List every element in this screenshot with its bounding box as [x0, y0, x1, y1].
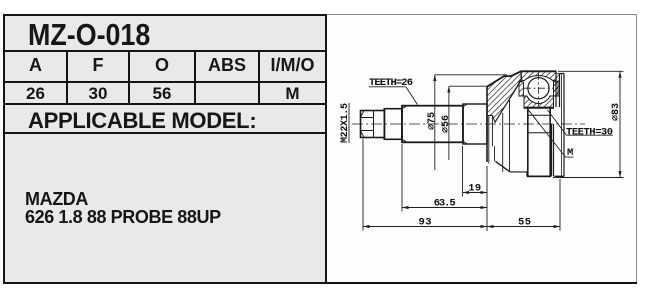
column divider A|F: [66, 52, 68, 103]
bell mouth face: [486, 87, 488, 162]
dim 19 line: [463, 192, 488, 194]
header A: [5, 55, 66, 76]
APPLICABLE MODEL: label: [28, 108, 328, 134]
hub left side: [527, 108, 529, 176]
stub end chamfer bottom: [361, 131, 365, 138]
column divider O|ABS: [194, 52, 196, 103]
cage right section: [554, 81, 559, 96]
ball vertical centermark: [538, 73, 540, 106]
svg-text:⌀56: ⌀56: [441, 115, 452, 133]
M22X1.5 underline: [348, 103, 350, 143]
dim 63.5 line: [402, 207, 487, 209]
svg-text:TEETH=30: TEETH=30: [566, 126, 613, 138]
table line under APPLICABLE MODEL row: [3, 132, 327, 134]
divider between table and drawing: [325, 14, 327, 282]
svg-text:93: 93: [419, 217, 432, 229]
bell wall hatched band over ball: [521, 71, 556, 80]
value I/M/O=M: [260, 84, 325, 104]
mouth inner lip circle edge: [491, 116, 493, 147]
M label leader: [528, 109, 574, 157]
TEETH=26 leader: [406, 87, 417, 105]
TEETH=26 underline: [369, 86, 406, 88]
bell bottom cone: [495, 161, 510, 172]
bell wall hatched section wedge: [487, 71, 522, 122]
bell wall hatched right strip: [554, 81, 557, 96]
dia83 dimension line: [619, 71, 621, 177]
dia56 extension: [449, 85, 487, 87]
dim 19 extension lines: [463, 146, 488, 231]
table line under header row: [3, 81, 327, 83]
ball: [528, 78, 549, 99]
column divider ABS|I/M/O: [258, 52, 260, 103]
value A=26: [5, 84, 66, 104]
mouth inner lip top edge: [487, 115, 492, 117]
bell bottom flat small: [510, 171, 527, 173]
svg-text:TEETH=26: TEETH=26: [369, 77, 413, 89]
svg-text:⌀75: ⌀75: [427, 112, 438, 130]
svg-text:⌀83: ⌀83: [611, 103, 622, 121]
boot groove band hatched: [556, 74, 560, 97]
main horizontal centerline: [352, 123, 585, 125]
hub bore top: [528, 114, 550, 116]
inner race hatched: [524, 96, 554, 107]
dim 63.5 extension line: [401, 144, 403, 212]
right block inner vertical: [561, 74, 563, 177]
neck left chamfer bottom: [463, 141, 467, 144]
thread crest line top: [361, 117, 374, 119]
dia75 arrow: [433, 75, 436, 81]
bell top silhouette: [487, 71, 556, 86]
dia83 arrows: [618, 71, 621, 177]
neck left chamfer top: [463, 104, 467, 107]
bell inner cavity cone line: [495, 80, 521, 122]
dim 93 extension line left: [362, 139, 364, 231]
value O=56: [130, 84, 194, 104]
header O: [130, 55, 194, 76]
dim 55 arrows: [487, 225, 560, 228]
right end face block: [556, 71, 564, 176]
spline shaft TEETH=26 outline: [402, 106, 463, 143]
table line under values row: [3, 103, 327, 105]
inner race bottom line: [524, 107, 555, 109]
collar outline: [384, 109, 402, 140]
dim 93/55 line: [363, 226, 560, 228]
neck between shaft and bell: [463, 104, 487, 144]
shaft left chamfer bottom: [402, 139, 407, 142]
applicable model text MAZDA: [25, 190, 335, 226]
stub end chamfer top: [361, 111, 365, 118]
dia56 arrow: [447, 86, 450, 92]
dia56 dimension line: [448, 86, 450, 160]
cage left section: [519, 81, 524, 96]
header ABS: [196, 55, 258, 76]
bottom groove verticals: [552, 124, 554, 176]
value F=30: [68, 84, 128, 104]
table line under title row: [3, 50, 327, 52]
dia75 extension to bell: [435, 74, 507, 76]
dim 63.5 arrows: [402, 206, 487, 209]
title MZ-O-018: [28, 18, 292, 53]
thread chamfer vertical: [373, 111, 375, 138]
hub right side: [549, 108, 551, 176]
svg-text:M: M: [567, 147, 573, 159]
svg-text:55: 55: [518, 217, 531, 229]
bell bottom step vertical: [526, 172, 528, 177]
dia83 extension bottom: [553, 177, 624, 179]
svg-text:63.5: 63.5: [434, 198, 456, 210]
bell bottom max flat: [527, 175, 551, 177]
hub bore bottom: [528, 132, 550, 134]
svg-text:M22X1.5: M22X1.5: [340, 103, 351, 143]
svg-text:19: 19: [468, 183, 481, 195]
bottom thick border full width: [3, 282, 637, 284]
dia83 extension top: [558, 70, 624, 72]
threaded stub M22 outline: [361, 111, 385, 138]
ball horizontal centermark: [524, 87, 553, 89]
dia75 dimension line: [434, 75, 436, 170]
dim 93 arrows: [363, 225, 487, 228]
header I/M/O: [260, 55, 325, 76]
shaft left chamfer top: [402, 106, 407, 109]
spec table panel background: [3, 14, 327, 284]
TEETH=30 leader: [548, 110, 614, 135]
dim 55 extension line right: [559, 179, 561, 231]
column divider F|O: [128, 52, 130, 103]
thread crest line bottom: [361, 130, 374, 132]
header F: [68, 55, 128, 76]
mouth circular edges bottom half: [489, 100, 510, 172]
bottom right face flat: [555, 175, 565, 177]
dim 19 arrows: [463, 191, 488, 194]
